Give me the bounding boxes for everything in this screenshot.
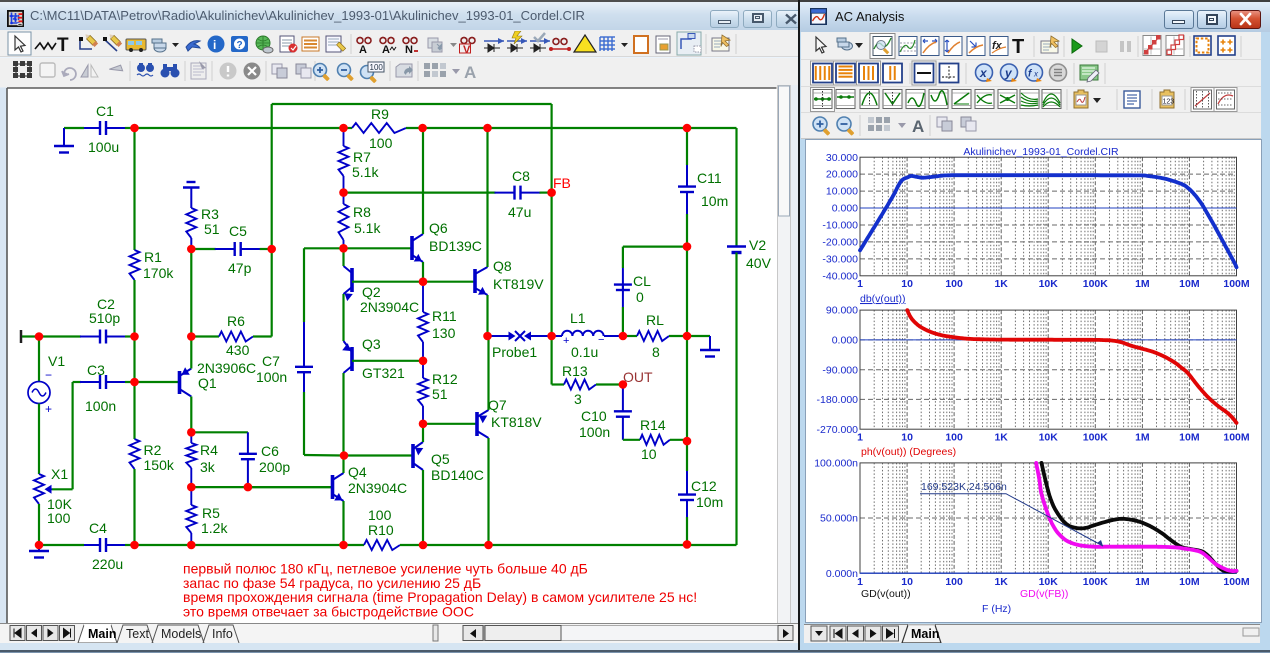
svg-text:R2: R2 — [144, 442, 162, 458]
svg-text:R13: R13 — [562, 363, 588, 379]
wire bus y=128 right — [423, 127, 737, 129]
capacitor C8 — [344, 192, 491, 194]
svg-text:200p: 200p — [259, 459, 290, 475]
capacitor C5 — [191, 248, 215, 250]
junction dots — [130, 124, 139, 133]
svg-text:30.000: 30.000 — [826, 152, 858, 164]
capacitor C6 — [191, 431, 248, 433]
svg-text:+: + — [45, 402, 52, 416]
svg-text:Q4: Q4 — [348, 464, 367, 480]
ground symbol top of R3 — [187, 181, 196, 183]
svg-text:C8: C8 — [512, 168, 530, 184]
svg-text:FB: FB — [553, 175, 571, 191]
svg-text:KT818V: KT818V — [491, 414, 542, 430]
svg-text:X1: X1 — [51, 466, 68, 482]
svg-text:db(v(out)): db(v(out)) — [860, 293, 906, 305]
svg-text:C11: C11 — [697, 170, 722, 186]
svg-text:2N3906C: 2N3906C — [197, 360, 256, 376]
wire C7 jog to R8 node — [304, 247, 344, 249]
wire top bus y=104 — [272, 103, 552, 105]
svg-text:430: 430 — [226, 342, 250, 358]
svg-text:20.000: 20.000 — [826, 169, 858, 181]
svg-text:R9: R9 — [371, 106, 389, 122]
svg-text:Q8: Q8 — [493, 258, 512, 274]
svg-text:10K: 10K — [1039, 576, 1059, 588]
svg-text:1K: 1K — [994, 432, 1008, 444]
svg-text:C1: C1 — [96, 103, 114, 119]
resistor R5 — [190, 487, 192, 505]
svg-text:OUT: OUT — [623, 369, 653, 385]
battery V2 — [735, 128, 737, 246]
svg-text:10: 10 — [901, 576, 913, 588]
svg-text:A: A — [464, 63, 476, 82]
svg-text:Q6: Q6 — [429, 220, 448, 236]
ground at C1 — [63, 128, 65, 146]
svg-text:R1: R1 — [144, 249, 162, 265]
input terminal — [20, 330, 23, 343]
plot2 grid — [860, 310, 1237, 429]
svg-text:CL: CL — [633, 273, 651, 289]
probe Probe1 — [488, 335, 497, 337]
wire CL top to rail — [623, 246, 687, 248]
resistor R3 — [186, 208, 196, 238]
svg-text:1: 1 — [857, 576, 863, 588]
svg-text:220u: 220u — [92, 556, 123, 572]
svg-text:C3: C3 — [87, 362, 105, 378]
svg-text:10K: 10K — [1039, 432, 1059, 444]
svg-text:C5: C5 — [229, 223, 247, 239]
svg-text:100n: 100n — [85, 398, 116, 414]
svg-text:100K: 100K — [1083, 278, 1109, 290]
svg-text:100M: 100M — [1223, 432, 1250, 444]
resistor R10 — [344, 544, 365, 546]
transistor Q7 KT818V (PNP) — [423, 423, 476, 425]
svg-text:100M: 100M — [1223, 278, 1250, 290]
svg-text:47p: 47p — [228, 260, 252, 276]
svg-text:-270.000: -270.000 — [817, 424, 859, 436]
svg-text:Q5: Q5 — [431, 451, 450, 467]
transistor Q4 2N3904C (NPN) — [248, 486, 331, 488]
wire rail x=191.3 — [190, 249, 192, 337]
svg-text:2N3904C: 2N3904C — [348, 480, 407, 496]
svg-text:100: 100 — [945, 278, 963, 290]
resistor R6 — [191, 335, 219, 337]
curve ph(v(out)) red — [907, 310, 1236, 423]
svg-text:N: N — [405, 44, 413, 56]
svg-text:A: A — [359, 44, 367, 56]
svg-text:Probe1: Probe1 — [492, 344, 537, 360]
svg-text:1: 1 — [857, 278, 863, 290]
svg-text:1.2k: 1.2k — [201, 520, 228, 536]
svg-text:5.1k: 5.1k — [352, 164, 379, 180]
svg-text:Info: Info — [212, 627, 233, 641]
svg-text:169.523K,24.506n: 169.523K,24.506n — [921, 481, 1007, 493]
svg-text:150k: 150k — [144, 457, 175, 473]
wire y=487 to Q4 base — [191, 486, 331, 488]
svg-text:RL: RL — [646, 312, 664, 328]
svg-text:2N3904C: 2N3904C — [360, 299, 419, 315]
svg-text:Models: Models — [161, 627, 201, 641]
svg-text:L1: L1 — [570, 310, 586, 326]
capacitor C11 — [686, 128, 688, 165]
svg-text:C6: C6 — [261, 443, 279, 459]
svg-text:51: 51 — [432, 386, 448, 402]
svg-text:100.000n: 100.000n — [814, 458, 858, 470]
svg-text:1K: 1K — [994, 278, 1008, 290]
capacitor C10 — [622, 385, 624, 412]
svg-text:100: 100 — [369, 135, 393, 151]
transistor Q1 2N3906C (PNP) — [135, 381, 179, 383]
svg-text:0: 0 — [636, 289, 644, 305]
wire rail x=271.7 — [271, 104, 273, 337]
svg-text:-90.000: -90.000 — [822, 364, 858, 376]
svg-text:Main: Main — [911, 627, 939, 641]
svg-text:100M: 100M — [1223, 576, 1250, 588]
capacitor C12 — [686, 441, 688, 471]
svg-text:R3: R3 — [201, 206, 219, 222]
resistor R13 — [552, 383, 564, 385]
svg-text:100: 100 — [47, 510, 71, 526]
svg-text:R14: R14 — [640, 417, 666, 433]
resistor RL — [623, 335, 637, 337]
svg-text:GD(v(FB)): GD(v(FB)) — [1020, 588, 1068, 600]
svg-text:1: 1 — [857, 432, 863, 444]
svg-text:10.000: 10.000 — [826, 186, 858, 198]
svg-text:GD(v(out)): GD(v(out)) — [861, 588, 911, 600]
svg-text:10M: 10M — [1179, 576, 1200, 588]
svg-text:10: 10 — [901, 278, 913, 290]
potentiometer X1 — [34, 474, 44, 504]
capacitor C7 — [303, 248, 305, 322]
svg-text:R12: R12 — [432, 371, 458, 387]
inductor L1 — [552, 335, 562, 337]
svg-text:R7: R7 — [353, 149, 371, 165]
svg-text:170k: 170k — [143, 265, 174, 281]
svg-text:C4: C4 — [89, 520, 107, 536]
svg-text:C10: C10 — [581, 408, 607, 424]
svg-text:10M: 10M — [1179, 278, 1200, 290]
svg-text:1M: 1M — [1135, 576, 1150, 588]
svg-text:51: 51 — [204, 221, 220, 237]
svg-text:10m: 10m — [701, 193, 728, 209]
svg-text:10K: 10K — [1039, 278, 1059, 290]
svg-text:BD139C: BD139C — [429, 238, 482, 254]
svg-text:Q2: Q2 — [362, 284, 381, 300]
svg-text:V: V — [463, 44, 471, 56]
svg-text:100: 100 — [368, 507, 392, 523]
svg-text:R5: R5 — [202, 505, 220, 521]
wire rail x=134.5 mid — [133, 337, 135, 383]
capacitor C2 — [39, 335, 81, 337]
resistor R8 — [343, 193, 345, 204]
svg-text:8: 8 — [652, 344, 660, 360]
curve db(v(out)) blue — [860, 175, 1237, 267]
resistor R11 — [422, 282, 424, 312]
resistor R7 — [343, 128, 345, 146]
svg-text:5.1k: 5.1k — [354, 220, 381, 236]
svg-text:3k: 3k — [200, 459, 216, 475]
svg-text:100: 100 — [945, 432, 963, 444]
capacitor C4 — [39, 544, 84, 546]
svg-text:C7: C7 — [262, 353, 280, 369]
svg-text:A: A — [382, 44, 390, 56]
svg-text:BD140C: BD140C — [431, 467, 484, 483]
plot1 grid — [860, 157, 1237, 276]
transistor Q5 BD140C (PNP) — [344, 454, 412, 456]
svg-text:100u: 100u — [88, 139, 119, 155]
resistor R2 — [133, 382, 135, 439]
svg-text:40V: 40V — [746, 255, 772, 271]
svg-text:i: i — [213, 38, 216, 52]
svg-text:50.000n: 50.000n — [820, 513, 858, 525]
svg-text:V2: V2 — [749, 237, 766, 253]
capacitor C1 — [64, 127, 84, 129]
svg-text:KT819V: KT819V — [493, 276, 544, 292]
svg-text:Q1: Q1 — [198, 375, 217, 391]
transistor Q3 GT321 (PNP, mirrored) — [350, 347, 354, 371]
svg-text:Akulinichev_1993-01_Cordel.CIR: Akulinichev_1993-01_Cordel.CIR — [963, 146, 1119, 158]
resistor R4 — [190, 432, 192, 443]
svg-text:ph(v(out)) (Degrees): ph(v(out)) (Degrees) — [861, 446, 956, 458]
svg-text:-40.000: -40.000 — [822, 270, 858, 282]
svg-text:GT321: GT321 — [362, 365, 405, 381]
resistor R12 — [422, 361, 424, 378]
svg-text:10m: 10m — [696, 494, 723, 510]
svg-text:10M: 10M — [1179, 432, 1200, 444]
svg-text:Q7: Q7 — [488, 397, 507, 413]
svg-text:−: − — [45, 368, 52, 382]
wire rail x=687 — [686, 247, 688, 336]
svg-text:1K: 1K — [994, 576, 1008, 588]
svg-text:47u: 47u — [508, 204, 531, 220]
svg-text:3: 3 — [574, 391, 582, 407]
svg-text:−: − — [598, 334, 604, 346]
svg-text:100n: 100n — [256, 369, 287, 385]
svg-text:100K: 100K — [1083, 432, 1109, 444]
svg-text:T: T — [57, 35, 69, 56]
resistor R9 — [344, 127, 353, 129]
svg-text:100: 100 — [945, 576, 963, 588]
svg-text:R4: R4 — [200, 442, 218, 458]
svg-text:1M: 1M — [1135, 278, 1150, 290]
wire bottom bus y=545 — [135, 544, 344, 546]
svg-text:V1: V1 — [48, 353, 65, 369]
svg-text:10: 10 — [901, 432, 913, 444]
transistor Q2 2N3904C (NPN, mirrored) — [350, 268, 354, 292]
svg-text:Main: Main — [88, 627, 116, 641]
wire top bus y=128 — [135, 127, 344, 129]
svg-text:130: 130 — [432, 325, 456, 341]
svg-text:R10: R10 — [368, 522, 394, 538]
svg-text:1M: 1M — [1135, 432, 1150, 444]
svg-text:90.000: 90.000 — [826, 305, 858, 317]
wire C3 to X1 wiper — [71, 382, 73, 489]
svg-text:10: 10 — [641, 446, 657, 462]
resistor R1 — [133, 128, 135, 250]
svg-text:100K: 100K — [1083, 576, 1109, 588]
plot3 grid — [860, 463, 1237, 573]
ground at X1 — [38, 545, 40, 551]
capacitor CL — [622, 307, 624, 336]
svg-text:-180.000: -180.000 — [817, 394, 859, 406]
wire rail x=551.6 (FB) — [550, 104, 552, 385]
svg-text:100: 100 — [370, 63, 384, 72]
svg-text:это время отвечает за быстроде: это время отвечает за быстродействие ООС — [183, 604, 474, 620]
svg-text:-20.000: -20.000 — [822, 237, 858, 249]
transistor Q6 BD139C (NPN) — [344, 247, 411, 249]
curve GD(v(out)) black — [1042, 463, 1237, 572]
svg-text:0.000: 0.000 — [832, 335, 858, 347]
svg-text:R8: R8 — [353, 204, 371, 220]
svg-text:C12: C12 — [691, 478, 717, 494]
svg-text:100n: 100n — [579, 424, 610, 440]
svg-text:?: ? — [237, 40, 243, 51]
svg-text:R6: R6 — [227, 313, 245, 329]
sine source V1 — [38, 337, 40, 382]
svg-text:R11: R11 — [432, 308, 457, 324]
capacitor C3 — [73, 381, 81, 383]
svg-text:0.000: 0.000 — [832, 203, 858, 215]
ground at RL — [687, 335, 710, 337]
curve GD(v(FB)) magenta — [1036, 463, 1236, 571]
svg-text:Q3: Q3 — [362, 336, 381, 352]
transistor Q8 KT819V (NPN) — [423, 281, 474, 283]
wire bottom bus right — [423, 544, 737, 546]
svg-text:-30.000: -30.000 — [822, 254, 858, 266]
svg-text:0.000n: 0.000n — [826, 568, 858, 580]
svg-text:510p: 510p — [89, 310, 120, 326]
svg-text:-10.000: -10.000 — [822, 220, 858, 232]
svg-text:0.1u: 0.1u — [571, 344, 598, 360]
svg-text:+: + — [563, 335, 569, 347]
resistor R14 — [623, 439, 640, 441]
svg-text:Text: Text — [126, 627, 149, 641]
svg-text:F (Hz): F (Hz) — [982, 603, 1011, 615]
